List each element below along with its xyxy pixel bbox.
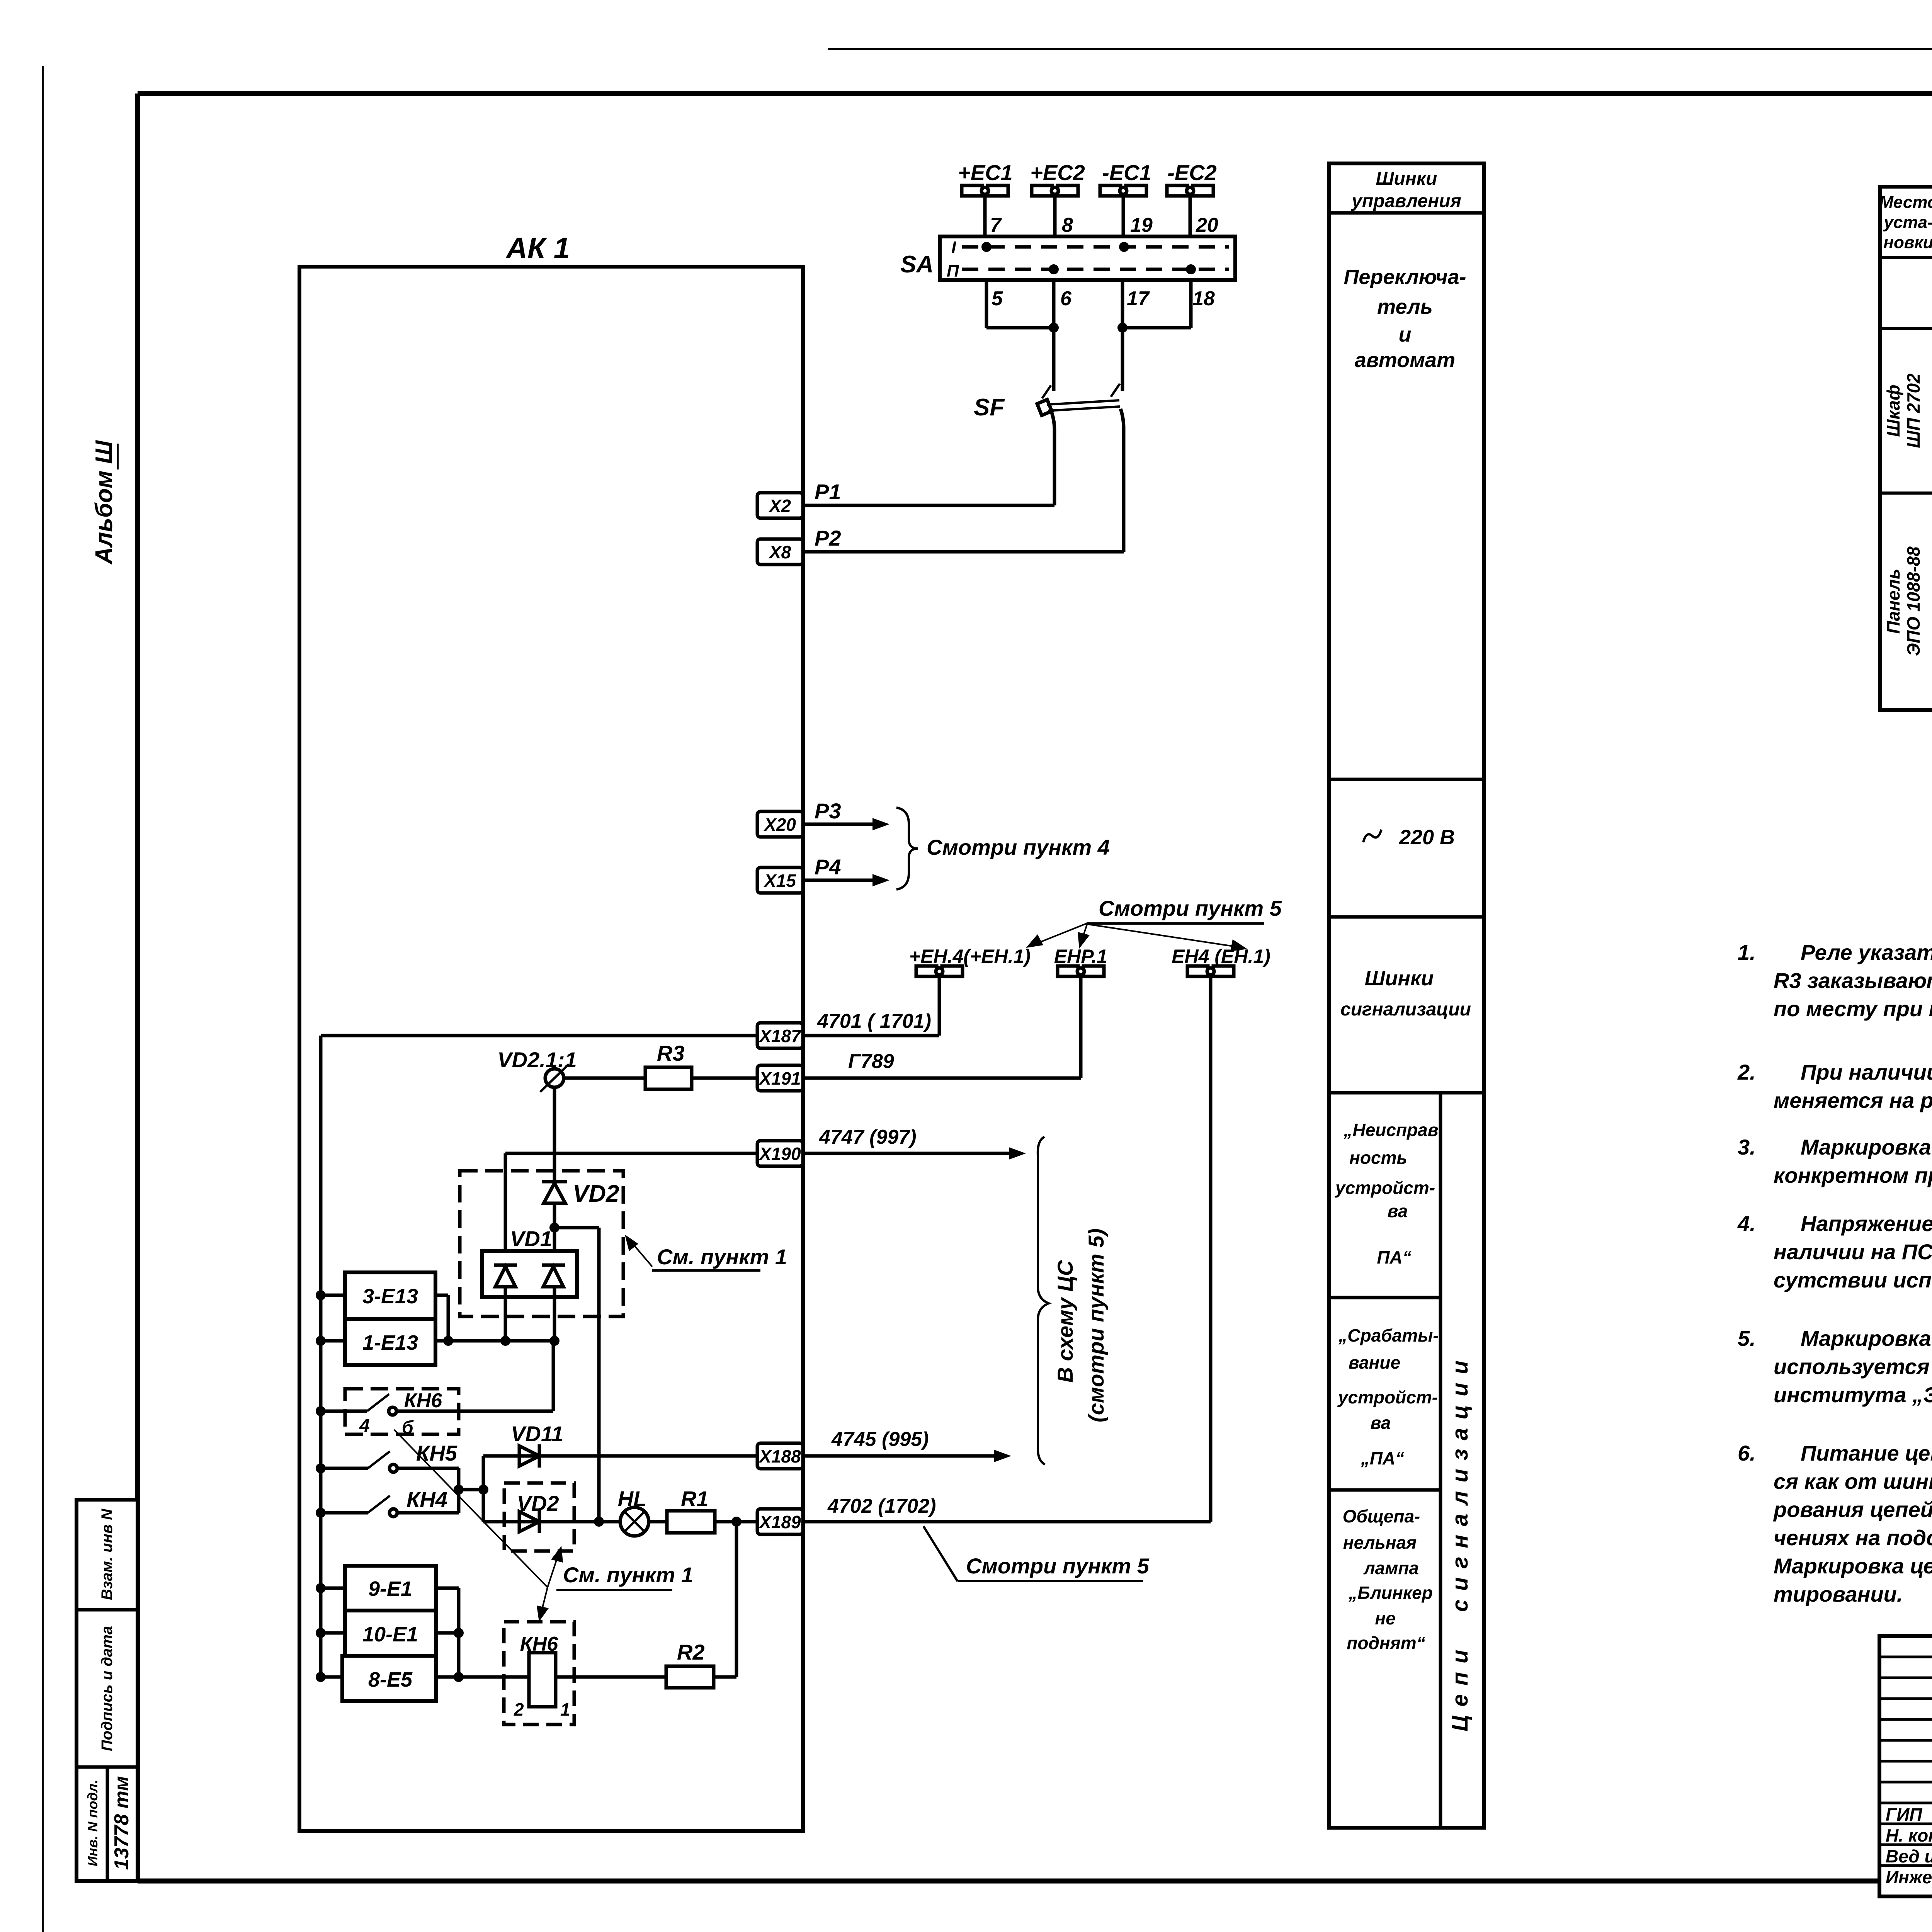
svg-text:Напряжение питания подводится: Напряжение питания подводится к зажимам … <box>1801 1211 1932 1236</box>
svg-text:Р4: Р4 <box>815 855 841 879</box>
svg-text:Смотри пункт 5: Смотри пункт 5 <box>1099 896 1282 920</box>
svg-text:Переключа-: Переключа- <box>1344 265 1466 289</box>
svg-text:П: П <box>947 262 959 281</box>
svg-text:4702 (1702): 4702 (1702) <box>827 1495 936 1517</box>
svg-text:8: 8 <box>1062 214 1073 236</box>
svg-text:17: 17 <box>1127 287 1150 310</box>
svg-text:Х189: Х189 <box>758 1512 801 1532</box>
svg-text:КН5: КН5 <box>416 1441 457 1465</box>
svg-text:КН4: КН4 <box>406 1487 447 1512</box>
svg-text:Маркировка в скобках дана для: Маркировка в скобках дана для ПС 220 кВ.… <box>1801 1326 1932 1350</box>
svg-text:новки: новки <box>1883 233 1932 252</box>
svg-text:Х187: Х187 <box>758 1026 802 1046</box>
svg-text:220 В: 220 В <box>1399 826 1455 849</box>
svg-text:„Блинкер: „Блинкер <box>1348 1583 1433 1603</box>
svg-text:4: 4 <box>359 1416 370 1436</box>
svg-text:сигнализации: сигнализации <box>1340 999 1471 1020</box>
svg-text:Н. контр.: Н. контр. <box>1886 1825 1932 1845</box>
svg-text:18: 18 <box>1192 287 1215 310</box>
svg-text:по месту при монтаже на объект: по месту при монтаже на объекте. <box>1774 997 1932 1021</box>
svg-text:13778 тм: 13778 тм <box>111 1776 133 1870</box>
svg-text:рования цепей напряжения при п: рования цепей напряжения при повреждении… <box>1773 1497 1932 1522</box>
svg-text:6.: 6. <box>1738 1441 1756 1465</box>
svg-text:5: 5 <box>992 287 1003 310</box>
svg-text:наличии на ПС источника гарант: наличии на ПС источника гарантированного… <box>1774 1240 1932 1264</box>
svg-text:R3: R3 <box>657 1041 685 1065</box>
svg-text:Маркировка токовых цепей и цеп: Маркировка токовых цепей и цепей напряже… <box>1801 1135 1932 1159</box>
svg-text:„ПА“: „ПА“ <box>1361 1448 1404 1468</box>
svg-text:Инв. N подл.: Инв. N подл. <box>85 1780 100 1866</box>
svg-text:ЕН4 (ЕН.1): ЕН4 (ЕН.1) <box>1172 946 1270 967</box>
svg-text:1-Е13: 1-Е13 <box>362 1331 418 1354</box>
svg-text:Шкаф: Шкаф <box>1883 384 1903 437</box>
svg-text:нельная: нельная <box>1343 1532 1417 1553</box>
svg-text:лампа: лампа <box>1363 1558 1419 1578</box>
svg-text:2.: 2. <box>1737 1060 1756 1084</box>
svg-text:2: 2 <box>514 1699 524 1719</box>
svg-text:3.: 3. <box>1738 1135 1756 1159</box>
svg-text:4745 (995): 4745 (995) <box>831 1428 929 1451</box>
svg-text:SF: SF <box>974 394 1005 421</box>
svg-text:Х20: Х20 <box>763 815 796 835</box>
svg-text:SA: SA <box>900 251 934 278</box>
svg-text:АК 1: АК 1 <box>505 232 570 265</box>
svg-text:+ЕН.4(+ЕН.1): +ЕН.4(+ЕН.1) <box>909 946 1031 967</box>
svg-text:В схему ЦС: В схему ЦС <box>1053 1260 1077 1383</box>
svg-text:VD1: VD1 <box>510 1226 552 1251</box>
svg-text:4.: 4. <box>1737 1211 1756 1236</box>
svg-text:R1: R1 <box>681 1486 709 1511</box>
svg-text:Р2: Р2 <box>815 526 841 550</box>
svg-text:Р1: Р1 <box>815 480 841 504</box>
svg-text:Общепа-: Общепа- <box>1343 1506 1420 1526</box>
svg-text:ва: ва <box>1388 1201 1408 1221</box>
svg-text:используется только для ПС 220: используется только для ПС 220кВ (смотри… <box>1774 1354 1932 1379</box>
svg-text:„Срабаты-: „Срабаты- <box>1338 1325 1439 1345</box>
svg-text:и: и <box>1399 323 1412 346</box>
svg-text:устройст-: устройст- <box>1335 1178 1435 1198</box>
svg-text:R2: R2 <box>677 1640 705 1664</box>
svg-text:+ЕС2: +ЕС2 <box>1030 160 1085 185</box>
svg-text:Альбом Ш: Альбом Ш <box>91 440 117 565</box>
svg-text:ГИП: ГИП <box>1886 1804 1922 1825</box>
svg-text:R3 заказываются дополнительно: R3 заказываются дополнительно и устанавл… <box>1774 968 1932 993</box>
svg-text:ПА“: ПА“ <box>1377 1247 1411 1267</box>
svg-text:института „Энергосетьпроект“).: института „Энергосетьпроект“). <box>1774 1383 1932 1407</box>
svg-text:автомат: автомат <box>1355 349 1455 372</box>
svg-text:Место: Место <box>1879 193 1932 212</box>
svg-text:Подпись и дата: Подпись и дата <box>99 1626 116 1751</box>
svg-text:4747 (997): 4747 (997) <box>819 1126 917 1148</box>
svg-text:10-Е1: 10-Е1 <box>362 1623 418 1646</box>
svg-text:„Неисправ: „Неисправ <box>1343 1120 1438 1140</box>
svg-text:ся как от шинных ТН, так и лин: ся как от шинных ТН, так и линейных, с у… <box>1774 1469 1932 1493</box>
svg-text:Шинки: Шинки <box>1376 168 1437 189</box>
svg-text:Г789: Г789 <box>848 1050 894 1073</box>
svg-text:ШП 2702: ШП 2702 <box>1903 373 1923 448</box>
svg-text:Х15: Х15 <box>763 871 796 891</box>
svg-text:19: 19 <box>1130 214 1153 236</box>
svg-text:-ЕС2: -ЕС2 <box>1167 160 1217 185</box>
svg-text:4701 ( 1701): 4701 ( 1701) <box>817 1010 931 1032</box>
svg-text:VD2: VD2 <box>573 1180 619 1207</box>
svg-text:ЭПО 1088-88: ЭПО 1088-88 <box>1903 546 1923 656</box>
svg-text:Питание цепей напряжения устро: Питание цепей напряжения устройства ПА м… <box>1801 1441 1932 1465</box>
svg-text:чениях на подстанции.: чениях на подстанции. <box>1774 1526 1932 1550</box>
svg-text:Х2: Х2 <box>768 496 791 516</box>
svg-text:20: 20 <box>1196 214 1218 236</box>
svg-text:Реле указательное КН6, комплек: Реле указательное КН6, комплекты диодов … <box>1801 940 1932 964</box>
svg-text:VD11: VD11 <box>511 1422 563 1446</box>
svg-text:ва: ва <box>1371 1413 1391 1433</box>
svg-text:Панель: Панель <box>1883 569 1903 634</box>
svg-text:Х190: Х190 <box>758 1144 801 1164</box>
svg-text:(смотри пункт 5): (смотри пункт 5) <box>1084 1228 1108 1422</box>
svg-text:Х8: Х8 <box>768 542 791 562</box>
svg-text:5.: 5. <box>1738 1326 1756 1350</box>
svg-text:I: I <box>951 238 956 257</box>
svg-text:6: 6 <box>1060 287 1072 310</box>
svg-text:1: 1 <box>560 1699 570 1719</box>
svg-text:Маркировка цепей напряжения ут: Маркировка цепей напряжения уточняется п… <box>1774 1554 1932 1578</box>
svg-text:не: не <box>1375 1608 1395 1628</box>
svg-text:См. пункт 1: См. пункт 1 <box>563 1563 693 1587</box>
svg-text:ность: ность <box>1349 1148 1407 1168</box>
svg-text:Смотри пункт 4: Смотри пункт 4 <box>927 835 1110 859</box>
svg-text:конкретном проектировании.: конкретном проектировании. <box>1774 1163 1932 1187</box>
svg-text:Цепи сигнализации: Цепи сигнализации <box>1447 1352 1473 1731</box>
svg-text:ЕНР.1: ЕНР.1 <box>1054 946 1107 967</box>
svg-text:Смотри пункт 5: Смотри пункт 5 <box>966 1554 1150 1578</box>
svg-text:Х188: Х188 <box>758 1446 801 1466</box>
svg-text:вание: вание <box>1349 1352 1400 1372</box>
svg-text:тель: тель <box>1377 295 1433 318</box>
svg-text:уста-: уста- <box>1883 213 1932 232</box>
svg-text:При наличии АСУ ТП подстанции: При наличии АСУ ТП подстанции реле КН6 т… <box>1801 1060 1932 1084</box>
svg-text:Шинки: Шинки <box>1365 967 1434 990</box>
svg-text:Х191: Х191 <box>758 1068 801 1088</box>
svg-text:3-Е13: 3-Е13 <box>362 1285 418 1308</box>
svg-text:Р3: Р3 <box>815 799 841 823</box>
svg-text:7: 7 <box>990 214 1002 236</box>
svg-text:Вед инж.: Вед инж. <box>1886 1846 1932 1866</box>
svg-text:сутствии используется только п: сутствии используется только при наладке… <box>1774 1268 1932 1292</box>
svg-text:устройст-: устройст- <box>1337 1387 1438 1407</box>
svg-text:Инженер: Инженер <box>1886 1867 1932 1887</box>
svg-text:управления: управления <box>1351 191 1461 211</box>
svg-text:См. пункт 1: См. пункт 1 <box>657 1245 787 1269</box>
svg-text:8-Е5: 8-Е5 <box>368 1668 413 1691</box>
svg-text:VD2.1:1: VD2.1:1 <box>497 1048 577 1072</box>
svg-text:Взам. инв N: Взам. инв N <box>99 1509 116 1600</box>
svg-text:б: б <box>402 1417 414 1438</box>
svg-text:-ЕС1: -ЕС1 <box>1102 160 1151 185</box>
svg-text:1.: 1. <box>1738 940 1756 964</box>
svg-text:меняется на реле типа РЭУ 11-3: меняется на реле типа РЭУ 11-30-5. <box>1774 1088 1932 1112</box>
svg-text:9-Е1: 9-Е1 <box>368 1577 412 1600</box>
svg-text:тировании.: тировании. <box>1774 1582 1903 1606</box>
svg-text:+ЕС1: +ЕС1 <box>958 160 1013 185</box>
svg-text:поднят“: поднят“ <box>1347 1633 1425 1653</box>
svg-text:КН6: КН6 <box>404 1389 443 1412</box>
